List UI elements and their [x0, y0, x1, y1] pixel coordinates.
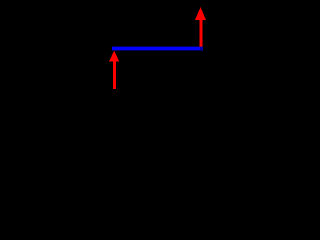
impulse arrow B shaft	[200, 20, 203, 47]
signal diagram: step level with impulses	[0, 0, 218, 133]
impulse arrow A shaft	[113, 62, 116, 89]
wire: blue step-level segment	[112, 47, 203, 51]
node: overlap of arrow B and blue level (navy junction)	[200, 47, 203, 51]
impulse arrow B head	[195, 7, 206, 20]
impulse arrow A head	[109, 51, 119, 62]
